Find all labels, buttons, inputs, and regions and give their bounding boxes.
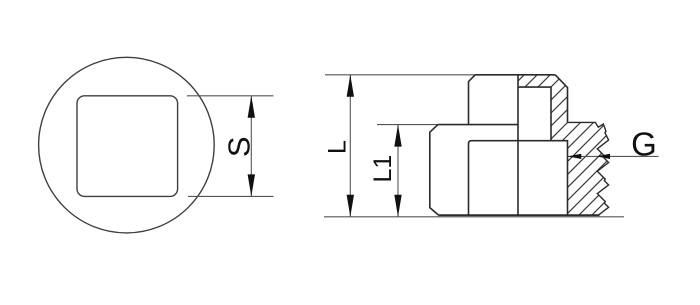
extension line L1	[377, 124, 438, 126]
extension line top (L) / top edge	[325, 74, 555, 76]
arrowhead L bottom	[347, 195, 354, 217]
body rear vertical edge	[517, 75, 519, 215]
extension line bottom (S)	[188, 195, 274, 197]
body bottom edge	[438, 214, 599, 216]
arrowhead S top	[248, 96, 255, 118]
arrowhead L1 top	[394, 125, 401, 147]
thread end chamfer	[555, 75, 567, 123]
square drive recess	[77, 96, 178, 197]
extension line bottom (L/L1)	[324, 216, 624, 218]
circle: head outline	[39, 57, 215, 233]
wall step	[518, 87, 551, 141]
thread crest zigzag profile	[568, 122, 609, 215]
arrowhead L top	[347, 75, 354, 97]
square recess cavity	[469, 141, 568, 216]
arrowhead G at thread crest	[597, 154, 611, 159]
svg-text:G: G	[631, 125, 657, 162]
dimension line S	[250, 96, 252, 197]
svg-text:L1: L1	[369, 155, 397, 183]
extension line top (S)	[187, 95, 274, 97]
dimension line L1	[397, 125, 399, 217]
svg-text:L: L	[324, 140, 352, 154]
leader line G	[568, 155, 659, 157]
body top shoulder edge	[438, 124, 518, 126]
part outline: hex body left edge with chamfers	[430, 125, 438, 215]
dimension line L	[349, 75, 351, 217]
arrowhead G at thread root	[568, 154, 582, 159]
arrowhead S bottom	[248, 174, 255, 196]
boss chamfer + front edge	[469, 75, 476, 125]
svg-text:S: S	[222, 136, 257, 157]
boss top edge	[475, 74, 555, 76]
arrowhead L1 bottom	[394, 195, 401, 217]
